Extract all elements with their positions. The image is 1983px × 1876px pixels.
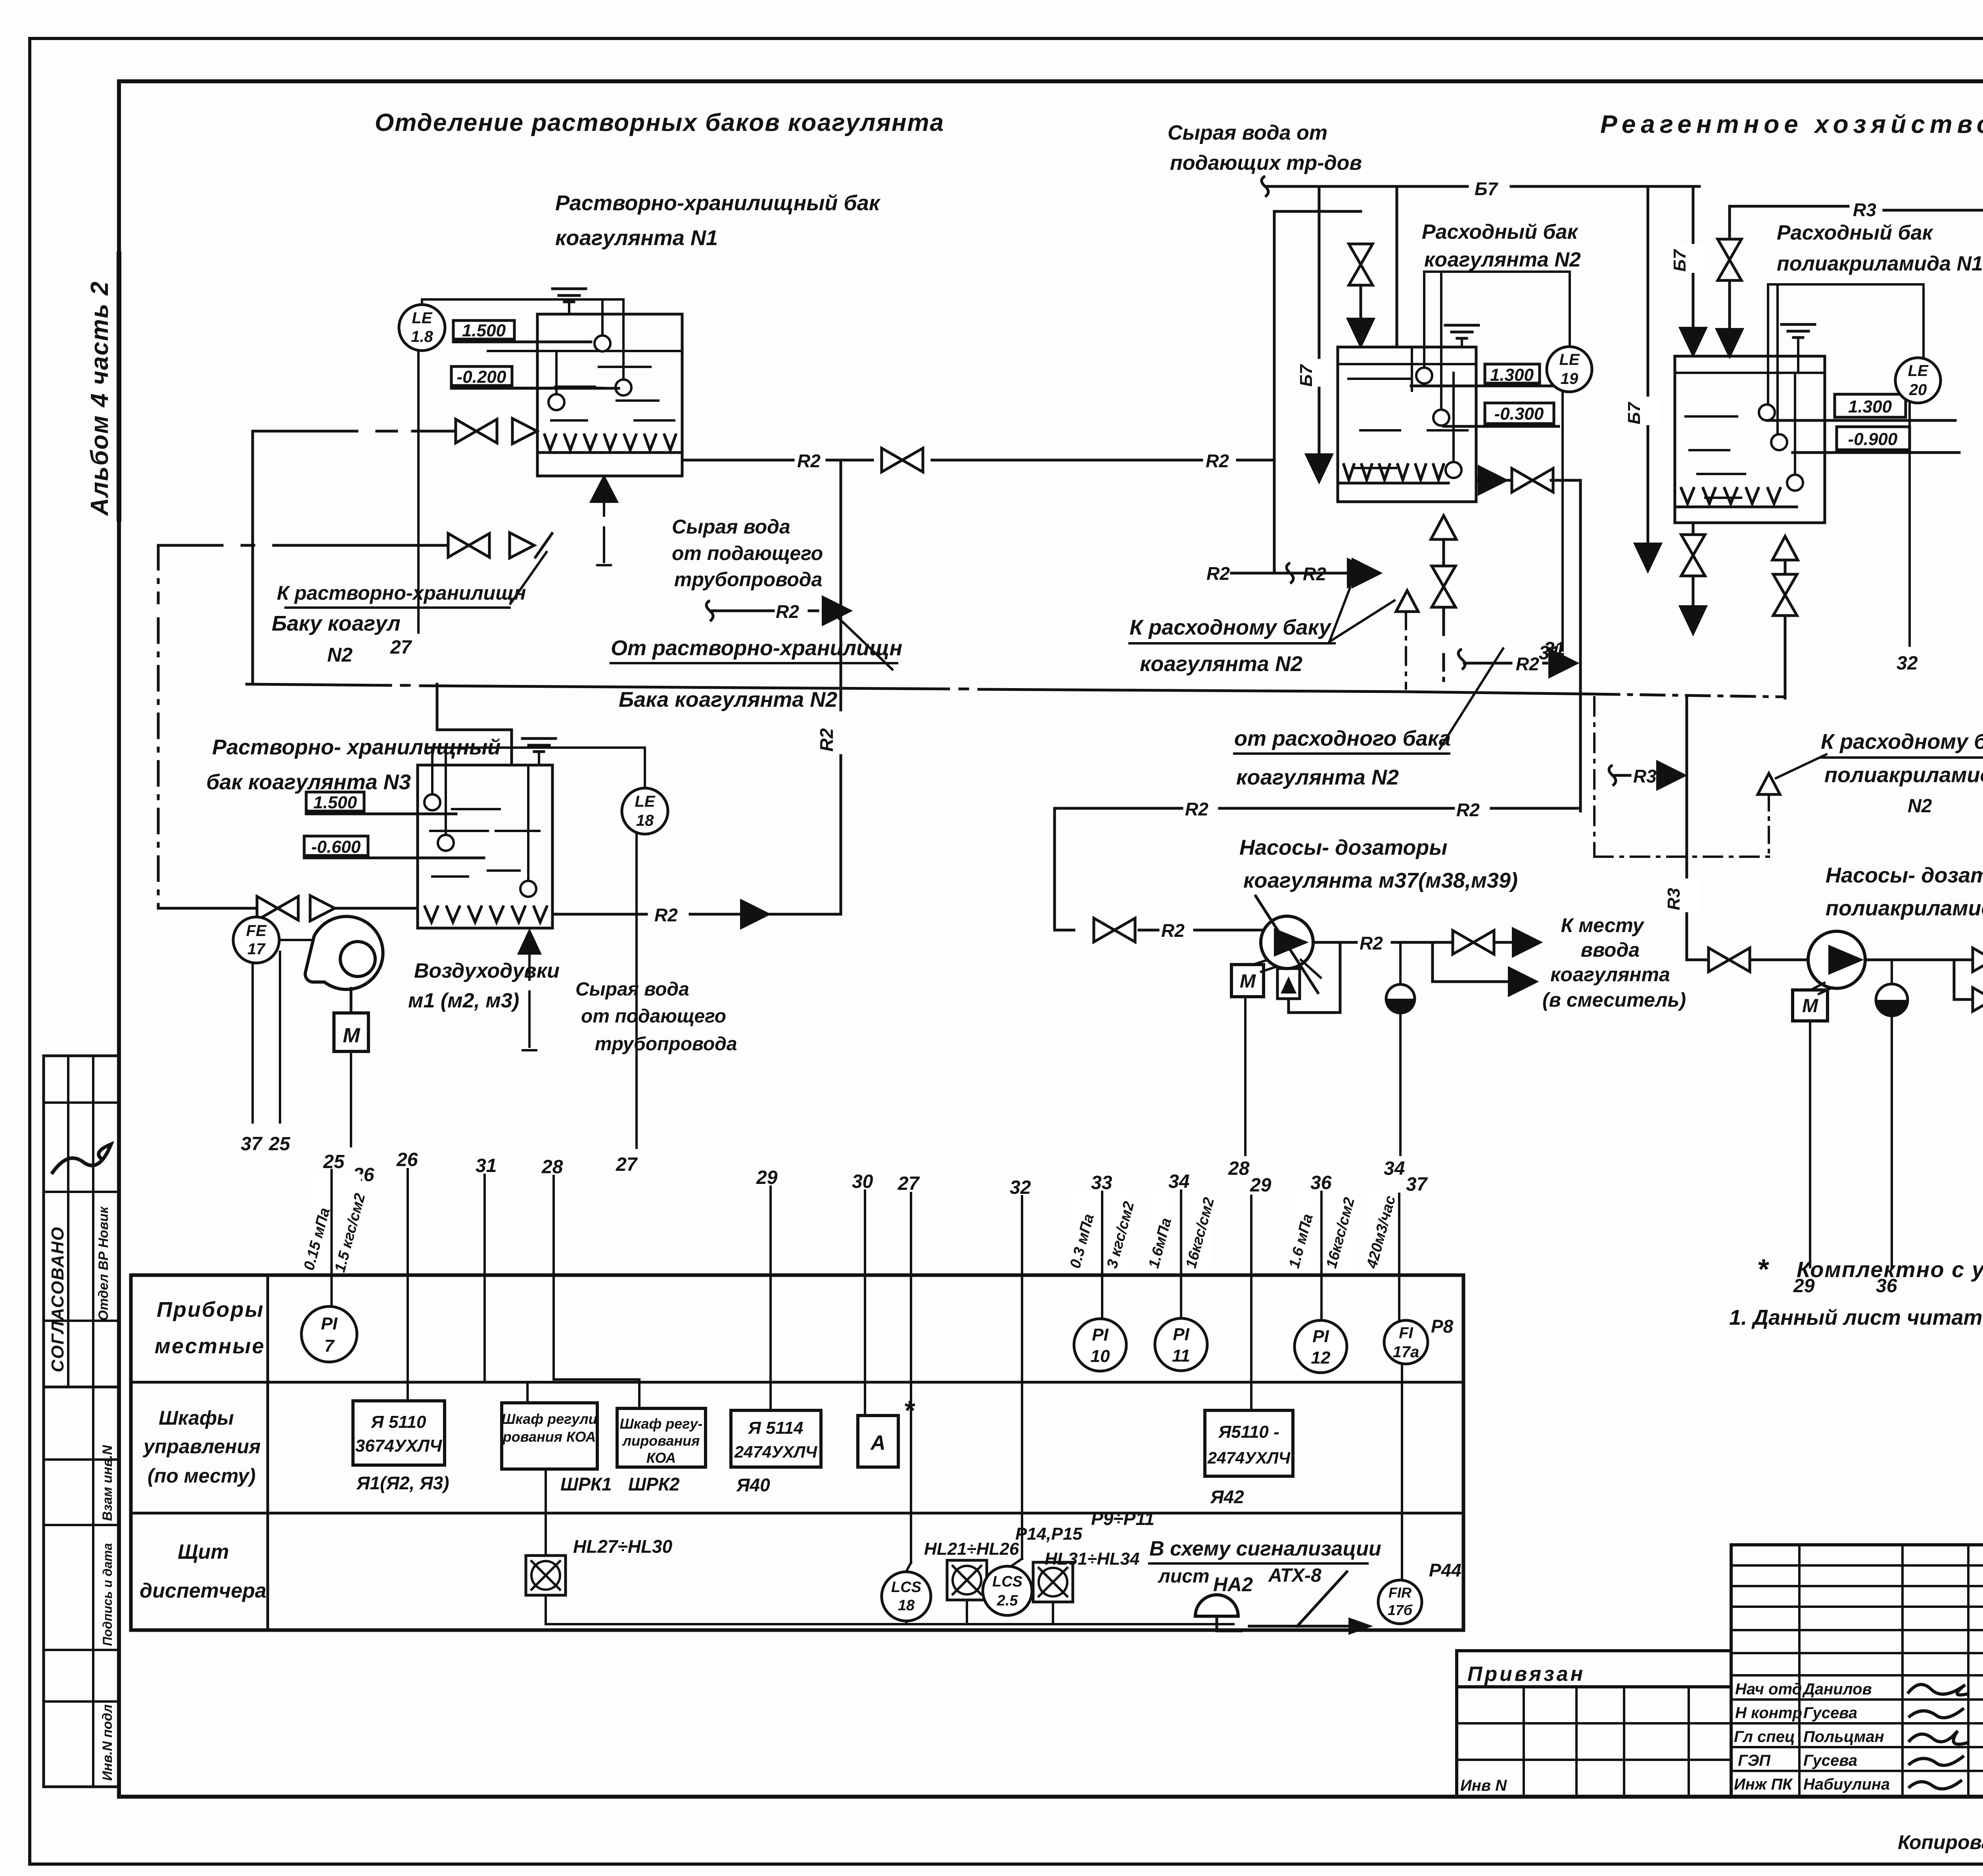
motor box M of M40 [1793,990,1828,1021]
svg-text:ввода: ввода [1581,939,1640,961]
svg-text:17: 17 [247,940,266,958]
wire 28 corner into ШРК2 box [554,1378,639,1381]
signal wire from damper down [1399,1013,1402,1155]
gauge FI17a [1384,1320,1428,1364]
cabinet box Я5114 [731,1410,821,1467]
tank T2 float 2 [1433,410,1449,426]
svg-text:м1 (м2, м3): м1 (м2, м3) [408,989,519,1012]
svg-text:Нач отд: Нач отд [1735,1680,1802,1698]
svg-text:К месту: К месту [1561,914,1645,936]
svg-text:М: М [343,1024,361,1047]
svg-text:Инж ПК: Инж ПК [1734,1776,1793,1793]
svg-text:Я42: Я42 [1210,1487,1244,1507]
svg-text:коагулянта N2: коагулянта N2 [1140,652,1302,676]
dosing pump M37 cross slash [1256,896,1318,993]
pipe corner down to doser suction [1053,808,1056,930]
level mark underline T1 lower [451,387,619,390]
tank T1 float stems bracket [422,298,623,301]
branch to second arrow [1433,942,1507,982]
svg-text:бак коагулянта N3: бак коагулянта N3 [206,770,411,794]
svg-text:Н контр: Н контр [1735,1704,1802,1722]
wire ШРК1 down to lamp [545,1469,547,1557]
svg-text:Сырая вода: Сырая вода [575,979,689,1000]
check valve on T3 feed [310,896,335,921]
tank T2 float 1 [1416,368,1432,384]
svg-text:коагулянта N2: коагулянта N2 [1424,248,1581,271]
svg-text:-0.600: -0.600 [311,837,361,857]
recorder FIR17б [1378,1580,1422,1624]
tank TP water dashes [1686,415,1737,418]
tank T1 float 3 [548,394,564,410]
svg-text:10: 10 [1091,1347,1110,1366]
svg-text:К растворно-хранилищн: К растворно-хранилищн [277,582,526,604]
svg-text:Я40: Я40 [736,1475,770,1495]
svg-text:Комплектно с установкой ПАА: Комплектно с установкой ПАА [1797,1257,1983,1282]
svg-text:1.500: 1.500 [462,321,506,340]
svg-text:27: 27 [616,1154,638,1175]
check valve into T1 [512,418,537,444]
level transmitter LE20 [1895,358,1941,403]
svg-text:управления: управления [142,1435,261,1458]
tank TP grounding symbol [1782,323,1815,326]
underline К растворно [286,606,510,609]
svg-text:М: М [1802,996,1818,1017]
tank T2 bottom drain triangle [1431,516,1456,539]
svg-text:Б7: Б7 [1670,249,1690,272]
svg-text:коагулянта: коагулянта [1550,963,1670,986]
tank T3 float 1 [424,794,440,810]
pipe T1 bottom left line [262,430,357,433]
tank T2 outlet arrow right [1476,479,1484,482]
svg-text:коагулянта N2: коагулянта N2 [1236,765,1399,789]
svg-text:Гл спец: Гл спец [1734,1728,1795,1746]
svg-text:СОГЛАСОВАНО: СОГЛАСОВАНО [48,1226,67,1372]
svg-text:R3: R3 [1664,888,1684,910]
valve on line to bak N2 [448,533,489,557]
vent triangle полиакриламид N2 [1758,773,1780,794]
wire LCS18 to bus [905,1621,907,1624]
vent triangle коагулянт N2 [1396,591,1418,612]
stamp inner divider upper [67,1056,69,1387]
svg-text:трубопровода: трубопровода [674,568,822,591]
svg-text:Гусева: Гусева [1803,1752,1857,1769]
svg-text:Воздуходувки: Воздуходувки [414,959,560,982]
raw water main pipe B7 [1262,176,1268,197]
svg-text:Я1(Я2, Я3): Я1(Я2, Я3) [356,1473,449,1493]
svg-text:Сырая вода от: Сырая вода от [1168,121,1327,144]
svg-text:подающих тр-дов: подающих тр-дов [1170,152,1362,175]
tank T2 shell [1338,347,1476,502]
svg-text:лист: лист [1158,1566,1210,1587]
svg-text:32: 32 [1897,653,1918,674]
controller LCS18 [882,1572,931,1621]
motor link lines M37 [1253,960,1268,965]
svg-text:Шкаф регу-: Шкаф регу- [619,1416,702,1432]
long transfer line right dash-dot part [1596,694,1785,697]
tank TP top rim [1675,372,1825,374]
arrow К месту ввода коагулянта [1513,928,1541,957]
signature 1 [1908,1684,1969,1695]
svg-text:Я5110 -: Я5110 - [1218,1422,1279,1442]
level transmitter LE19 [1547,347,1592,392]
dashed raw-water arrow into T1 [591,476,618,502]
svg-text:1.300: 1.300 [1848,397,1892,416]
wire lamp2 to bus [1052,1602,1054,1624]
blower motor box M [334,1013,368,1051]
instrument table frame [131,1275,1463,1630]
B7 terminal drop into tank PAA [1692,186,1695,332]
svg-text:30: 30 [852,1171,873,1192]
svg-text:от подающего: от подающего [581,1006,726,1027]
svg-text:-0.200: -0.200 [457,367,506,387]
pipe second left line with valves [158,544,222,547]
svg-text:Инв N: Инв N [1460,1777,1507,1794]
svg-text:Данилов: Данилов [1802,1680,1872,1698]
signal wires 37 25 from FE17 [251,963,254,1122]
pipe R3 corner to PAA pump suction [1687,959,1709,961]
svg-text:Отделение растворных баков: Отделение растворных баков коагулянта [375,109,944,136]
stamp horizontal dividers [44,1101,119,1104]
dash-dot detour to vent PAA N2 [1593,697,1596,857]
tank T1 inner bottom line [537,451,682,454]
motor link lines M40 [1811,983,1824,990]
svg-text:PI: PI [1173,1325,1189,1344]
underline of Альбом label [117,254,121,520]
svg-text:Гусева: Гусева [1803,1704,1857,1722]
tank T3 float 2 [438,835,454,851]
tank T3 air chevrons [424,905,547,922]
tank TP float 2 [1771,434,1787,450]
svg-text:лирования: лирования [622,1433,700,1449]
svg-text:Шкафы: Шкафы [159,1407,234,1429]
table row divider 2 [131,1512,1463,1515]
level transmitter LE18 T1 [399,305,445,351]
flow element FE17 [233,917,279,963]
svg-text:*: * [903,1395,915,1426]
svg-text:R2: R2 [1206,563,1230,584]
svg-text:32: 32 [1010,1177,1031,1198]
svg-text:HL31÷HL34: HL31÷HL34 [1045,1549,1139,1569]
svg-text:2474УХЛЧ: 2474УХЛЧ [1207,1448,1291,1467]
svg-text:R2: R2 [797,451,821,471]
svg-text:Реагентное хозяйство: Реагентное хозяйство [1600,110,1983,138]
svg-text:31: 31 [476,1155,497,1176]
svg-text:PI: PI [1092,1325,1108,1345]
pipe riser to tank2 fill [1273,211,1276,572]
raw water arrow into T3 bottom [518,930,541,954]
wire lamp to bus [966,1600,968,1624]
level transmitter LE18 T3 [622,788,668,834]
svg-text:LE: LE [1559,351,1580,368]
svg-text:LCS: LCS [891,1579,921,1596]
svg-text:31: 31 [1544,639,1565,660]
svg-text:Я 5114: Я 5114 [748,1418,804,1438]
level box -0.600 T3 [304,836,368,856]
label Б7 rotated x4155 [1634,397,1660,425]
svg-text:В схему сигнализации: В схему сигнализации [1149,1537,1381,1560]
lamp HL21-HL26 [947,1560,987,1600]
pipe R2 to coagulant dosers [1055,807,1182,810]
svg-text:HL27÷HL30: HL27÷HL30 [573,1536,673,1557]
svg-text:26: 26 [396,1149,418,1170]
lower branch valve [1954,998,1974,1001]
svg-text:20: 20 [1909,381,1927,399]
svg-text:PI: PI [1312,1327,1329,1346]
level underline T3 upper [306,813,456,815]
tank TP left drain valve [1692,523,1695,538]
tank T3 grounding symbol [522,737,556,740]
level box -0.300 T2 [1485,403,1554,424]
pipe R3 vertical to PAA doser [1686,697,1688,960]
svg-text:Инв.N подл: Инв.N подл [100,1704,115,1781]
svg-text:А: А [870,1431,886,1454]
feedback loop M37 [1289,944,1340,1013]
svg-text:FE: FE [246,922,267,940]
svg-text:-0.900: -0.900 [1848,430,1898,449]
svg-text:Расходный бак: Расходный бак [1422,221,1579,244]
tank T2 inner bottom [1338,482,1448,485]
svg-text:К расходному баку: К расходному баку [1821,730,1983,754]
signature 2 [1908,1708,1964,1718]
controller LCS2.5 [983,1566,1032,1615]
svg-text:*: * [1757,1254,1769,1285]
svg-text:1.500: 1.500 [313,793,357,812]
svg-text:Приборы: Приборы [157,1298,264,1322]
svg-text:29: 29 [756,1167,778,1188]
svg-text:25: 25 [268,1134,291,1155]
svg-text:АТХ-8: АТХ-8 [1268,1565,1321,1586]
tank TP float stems [1768,283,1924,286]
svg-text:Сырая вода: Сырая вода [672,516,790,538]
svg-text:ГЭП: ГЭП [1738,1752,1771,1769]
svg-text:От растворно-хранилищн: От растворно-хранилищн [611,636,902,660]
svg-text:18: 18 [898,1597,915,1614]
signal wire M box M40 down [1809,1021,1811,1267]
signal wire LE19 down [1561,392,1564,650]
tank TP right outlet to transfer line [1784,616,1787,698]
B7 drop into tank2 [1396,186,1398,347]
pipe T2 outlet corner down [1551,479,1580,482]
pipe doser suction [1055,929,1074,932]
svg-text:R2: R2 [1456,800,1480,820]
svg-text:КОА: КОА [646,1450,676,1466]
svg-text:коагулянта м37(м38,м39): коагулянта м37(м38,м39) [1243,869,1518,892]
svg-text:(по месту): (по месту) [148,1465,256,1487]
tank T2 water dashes [1348,378,1412,380]
callout lines from text to arrow and vent [1329,588,1350,642]
blower motor link [350,988,353,1013]
wire to tank2 fill arrow [1360,286,1362,322]
tank T2 bottom drain valve [1442,539,1445,566]
signal wire LE20 down [1908,403,1911,646]
label Б7 rotated x3326 [1307,359,1333,387]
wire 37 to FI17a with value [1398,1194,1400,1321]
svg-text:28: 28 [1228,1158,1250,1179]
svg-text:R2: R2 [1516,654,1539,674]
level box 1.300 T2 [1485,364,1540,383]
svg-text:коагулянта N1: коагулянта N1 [555,226,718,250]
wire R3 drop to arrow [1728,282,1731,333]
svg-text:27: 27 [390,637,412,658]
tank TP shell [1675,356,1825,523]
svg-text:R2: R2 [1206,451,1229,471]
tank T2 float stems [1424,270,1570,273]
tank TP right outlet triangle [1772,536,1798,560]
svg-text:R2: R2 [1360,933,1383,953]
valve on discharge [1453,930,1494,954]
pipe R2 from T1 outlet [682,459,793,462]
level underline T3 lower [304,857,484,859]
svg-text:Б7: Б7 [1624,401,1644,424]
arrow R3 into tank PAA [1716,329,1743,357]
svg-text:FI: FI [1399,1324,1413,1342]
signature 4 [1908,1756,1964,1765]
svg-text:11: 11 [1172,1346,1190,1366]
tank T1 grounding symbol [552,288,586,290]
tank T1 water dashes [599,366,650,368]
tank T1 shell [537,314,682,476]
signature 5 [1908,1780,1962,1789]
gauge PI11 [1155,1318,1207,1371]
svg-text:Взам инв.N: Взам инв.N [100,1444,115,1521]
signal wire LE18 T3 down [635,834,638,1148]
level mark box -0.200 T1 [451,366,512,386]
svg-text:М: М [1240,971,1256,992]
tank TP left drain arrow down [1692,576,1695,609]
svg-text:НА2: НА2 [1213,1573,1253,1596]
valve PAA suction [1709,948,1750,972]
svg-text:25: 25 [323,1151,345,1172]
cross end marker [535,533,552,557]
svg-text:полиакриламида N1: полиакриламида N1 [1777,252,1983,275]
Привязан box [1457,1651,1731,1687]
svg-text:Подпись и дата: Подпись и дата [100,1543,115,1646]
valve on T3 feed [257,896,298,920]
svg-text:R2: R2 [1185,799,1208,819]
svg-text:R2: R2 [776,601,799,622]
signal bus dispatcher row [546,1623,1233,1625]
svg-text:17а: 17а [1393,1343,1419,1361]
level underline T2 upper [1411,385,1555,387]
damper stem M40 [1891,960,1893,984]
marker C-x-R2 arrow 31 [1458,649,1465,669]
table label column divider [267,1275,269,1630]
valve on T1 bottom line [456,419,497,443]
vent stem dash-dot [1405,612,1407,689]
svg-text:7: 7 [324,1336,335,1356]
svg-text:37: 37 [1406,1174,1428,1195]
dosing pump M40 internal arrow [1828,945,1864,975]
left stamp column frame [44,1056,119,1787]
title block staff table frame [1731,1545,1983,1797]
svg-text:1.300: 1.300 [1490,365,1534,385]
svg-text:N2: N2 [1908,796,1932,817]
staff table row lines [1731,1564,1983,1567]
motor box M of M37 [1231,965,1264,997]
tank TP float 1 [1759,405,1775,420]
svg-text:34: 34 [1384,1158,1405,1179]
callout to vent PAA [1776,754,1826,778]
svg-text:Шкаф регули: Шкаф регули [501,1411,597,1427]
svg-text:Привязан: Привязан [1467,1663,1585,1686]
svg-text:Растворно-хранилищный бак: Растворно-хранилищный бак [555,191,881,215]
tank T2 float 3 [1446,462,1461,478]
svg-text:Щит: Щит [178,1540,229,1563]
pipe R3 main [1730,205,1848,208]
marker C-R2 arrow to расходный бак [1287,563,1293,583]
svg-text:28: 28 [541,1157,563,1178]
svg-text:Р9÷Р11: Р9÷Р11 [1091,1508,1155,1529]
svg-text:R2: R2 [1161,920,1185,941]
svg-text:R3: R3 [1853,199,1876,220]
dosing pump M37 internal arrow [1274,928,1309,957]
stamp column vertical divider [92,1056,94,1787]
cabinet box A [858,1416,898,1467]
callout line to text K растворно [510,552,547,604]
pipe T3 outlet to corner [769,913,841,916]
svg-text:N2: N2 [327,644,353,666]
svg-text:R3: R3 [1633,766,1657,786]
arrow on T3 outlet [741,900,769,928]
svg-text:LE: LE [635,793,655,810]
tank T2 top rim [1338,363,1476,365]
level mark underline T1 upper [453,341,591,343]
gauge PI7 [301,1306,357,1362]
tank T3 float stems [431,748,433,794]
svg-text:К расходному баку: К расходному баку [1130,616,1332,639]
svg-text:12: 12 [1311,1348,1331,1368]
cabinet box ШРК1 [502,1403,597,1469]
wire FE17 to blower [279,939,317,941]
staff table column lines [1798,1545,1801,1797]
svg-text:рования КОА: рования КОА [502,1429,596,1445]
svg-text:2474УХЛЧ: 2474УХЛЧ [734,1442,818,1461]
svg-text:Насосы- дозаторы: Насосы- дозаторы [1239,836,1448,859]
lamp HL31-HL34 [1033,1562,1073,1602]
label Б7 rotated x4269 [1680,244,1705,273]
svg-text:27: 27 [898,1173,920,1194]
pipe M37 discharge [1313,941,1356,944]
svg-text:Набиулина: Набиулина [1803,1776,1890,1793]
label R3 rotated on riser [1674,879,1699,912]
check valve on line to bak N2 [510,533,534,558]
svg-text:Я 5110: Я 5110 [371,1412,426,1432]
svg-text:LE: LE [412,309,432,327]
pipe T3 feed line [158,907,258,910]
gauge PI12 [1295,1320,1347,1373]
svg-text:Отдел ВР Новик: Отдел ВР Новик [96,1206,111,1321]
svg-text:Р44: Р44 [1429,1560,1461,1581]
left revision grid [1457,1687,1731,1797]
svg-text:Насосы- дозаторы: Насосы- дозаторы [1826,863,1983,887]
pulsation damper M40 [1876,984,1908,1016]
svg-text:3674УХЛЧ: 3674УХЛЧ [355,1436,442,1456]
pipe left riser down to transfer line [251,431,254,684]
dosing pump M40 body [1808,931,1865,988]
svg-text:LE: LE [1908,362,1928,380]
tank T3 shell [418,765,552,928]
svg-text:PI: PI [321,1314,338,1333]
svg-text:18: 18 [636,812,654,829]
svg-text:Расходный бак: Расходный бак [1777,221,1934,244]
tank T3 fill pipe from transfer line [437,684,512,765]
tank T1 float 2 [616,380,631,395]
slash through marker [1440,648,1503,749]
wire 29 pair down to cabinet Я42 [1250,1196,1252,1410]
svg-text:HL21÷HL26: HL21÷HL26 [924,1539,1019,1559]
svg-text:полиакриламида: полиакриламида [1824,763,1983,787]
valve on T1 outlet pipe [882,448,923,472]
